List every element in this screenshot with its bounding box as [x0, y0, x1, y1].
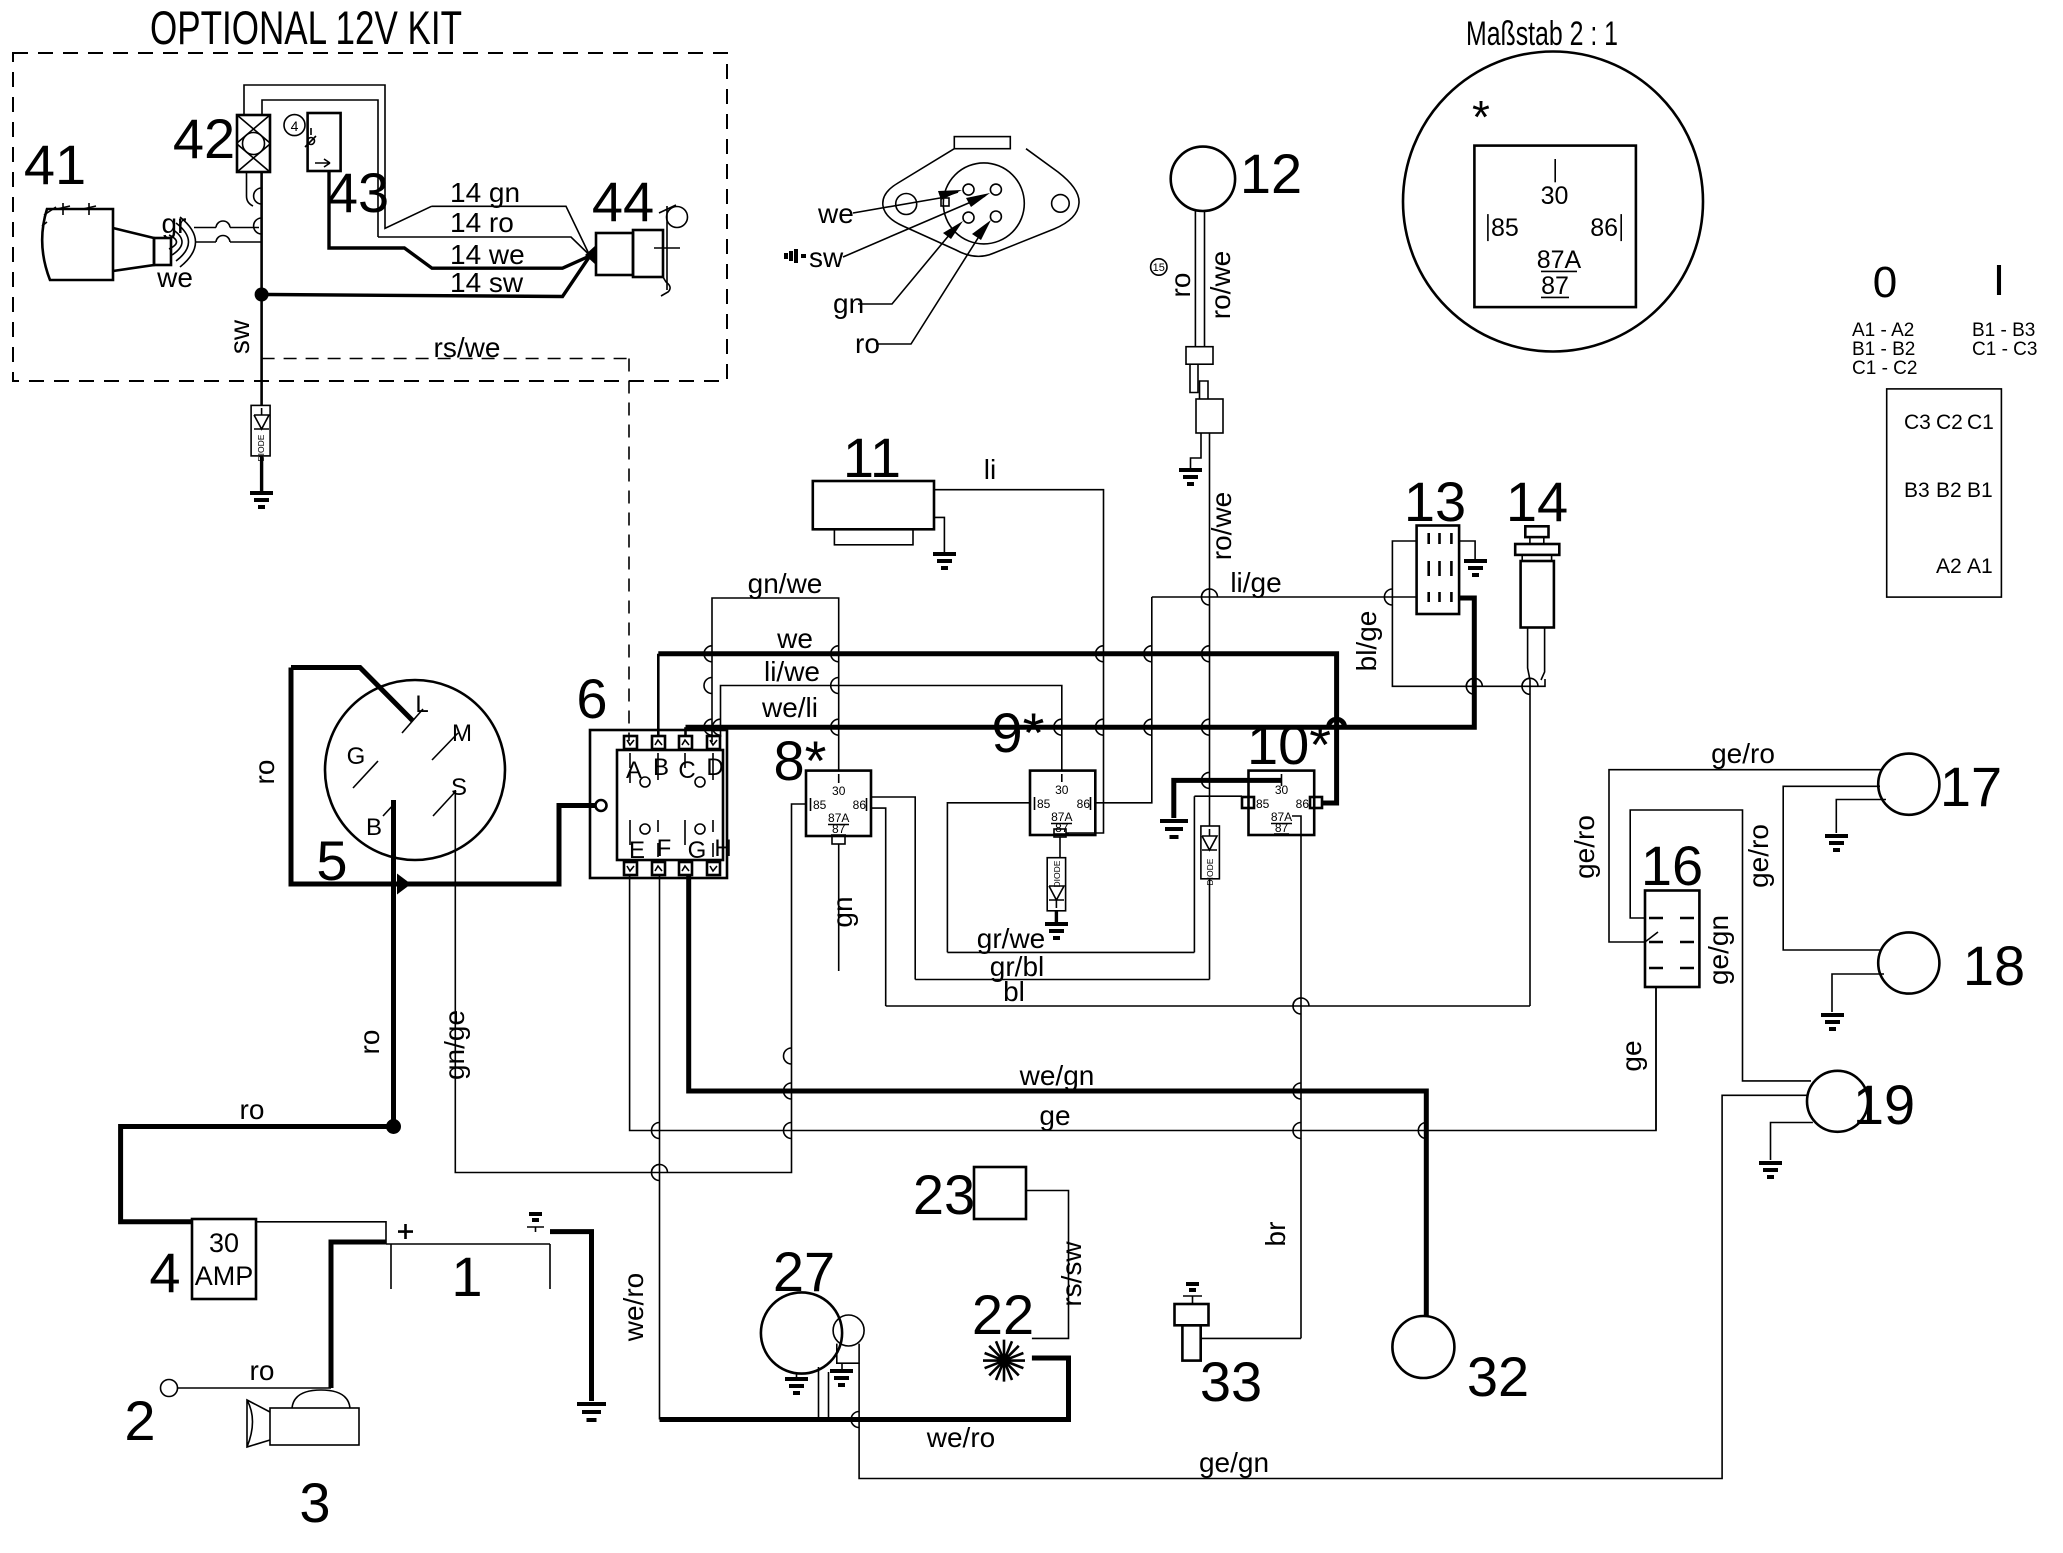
thick wire to item 2 — [331, 1242, 386, 1388]
box 13 — [1417, 526, 1460, 615]
fuse 4 — [192, 1219, 256, 1299]
svg-text:B1 - B3: B1 - B3 — [1972, 320, 2035, 341]
battery 1 — [386, 1244, 550, 1289]
thick wire B down to ro bus — [391, 800, 396, 1122]
wire gr from 41 — [194, 227, 259, 229]
svg-text:sw: sw — [809, 242, 844, 273]
svg-text:we/li: we/li — [761, 692, 818, 723]
wire ro/we down to relay10-85 — [1209, 433, 1211, 796]
terminal 2 — [161, 1380, 178, 1397]
terminal A — [624, 736, 637, 749]
pin 30 tick — [1554, 159, 1556, 182]
ground above — [1186, 1284, 1199, 1290]
svg-text:86: 86 — [853, 798, 867, 812]
wire gr/bl bus — [915, 979, 1209, 981]
svg-text:A1: A1 — [1967, 555, 1993, 578]
circled 4 — [284, 115, 305, 136]
contact B — [383, 803, 395, 816]
wire we from 41 — [196, 241, 261, 243]
svg-text:bl/ge: bl/ge — [1351, 611, 1382, 672]
svg-text:85: 85 — [1037, 797, 1051, 811]
svg-text:30: 30 — [1055, 783, 1069, 797]
svg-text:85: 85 — [813, 798, 827, 812]
svg-text:ro: ro — [354, 1030, 385, 1055]
wire 13 to ground — [1459, 541, 1475, 559]
connector pin box — [1887, 389, 2002, 597]
svg-text:87: 87 — [1275, 821, 1289, 835]
terminal circle left — [596, 800, 607, 811]
svg-text:sw: sw — [224, 319, 255, 354]
box 9 — [1030, 771, 1095, 835]
svg-text:2: 2 — [124, 1389, 155, 1452]
svg-text:M: M — [452, 720, 472, 747]
ground — [1160, 821, 1188, 837]
svg-text:F: F — [657, 835, 672, 862]
svg-text:rs/sw: rs/sw — [1056, 1241, 1087, 1307]
wire 33 to br — [1201, 1337, 1301, 1339]
wire li/we — [721, 686, 1062, 771]
svg-text:ge: ge — [1616, 1040, 1647, 1071]
wire 17 to 18 ge/ro — [1783, 786, 1881, 950]
wire 42top-right inner loop to 14ro — [262, 100, 378, 237]
wire sw down to diode — [260, 301, 263, 405]
relay8 87 pin block — [832, 836, 845, 844]
svg-text:B1 - B2: B1 - B2 — [1852, 339, 1915, 360]
wire ge/ro top — [1609, 770, 1882, 942]
svg-text:30: 30 — [1541, 182, 1569, 210]
svg-text:ge/gn: ge/gn — [1199, 1447, 1269, 1478]
contact L — [402, 709, 423, 733]
svg-text:9*: 9* — [992, 701, 1045, 764]
thick wire ro left frame — [291, 668, 595, 885]
terminal H — [707, 862, 720, 875]
svg-text:C1 - C2: C1 - C2 — [1852, 358, 1917, 379]
svg-text:14: 14 — [1506, 470, 1568, 533]
svg-text:22: 22 — [972, 1283, 1034, 1346]
ground 19 — [1771, 1123, 1813, 1161]
wire 9-85 to gr/we — [947, 803, 1030, 953]
thick wire battery minus to ground — [550, 1232, 592, 1401]
svg-text:B2: B2 — [1936, 479, 1962, 502]
svg-text:87: 87 — [1541, 272, 1569, 300]
svg-text:AMP: AMP — [195, 1261, 254, 1291]
svg-text:44: 44 — [592, 170, 654, 233]
wire we/ro from F down — [659, 874, 661, 1420]
svg-text:14 we: 14 we — [450, 239, 525, 270]
wire bl/ge 13 to 14 — [1392, 541, 1545, 686]
svg-text:B: B — [653, 754, 669, 781]
svg-text:ro: ro — [249, 760, 280, 785]
svg-text:16: 16 — [1641, 834, 1703, 897]
relay square — [1474, 146, 1636, 308]
wire ge bus — [630, 874, 1656, 1131]
terminal C — [679, 736, 692, 749]
ground — [1464, 561, 1487, 575]
box 23 — [974, 1167, 1026, 1219]
dashed kit border — [13, 53, 727, 381]
svg-text:A1 - A2: A1 - A2 — [1852, 320, 1914, 341]
svg-text:we: we — [817, 198, 854, 229]
wire to ground from connector — [1191, 433, 1202, 468]
wire 14 sw thick — [268, 258, 589, 297]
spark gap 22 — [983, 1340, 1025, 1382]
svg-text:8*: 8* — [774, 729, 827, 792]
wire ge from 16 to ge bus — [1655, 987, 1657, 1131]
svg-text:we/gn: we/gn — [1019, 1060, 1095, 1091]
wire 85 horizontal — [1194, 795, 1242, 797]
wire br from 10-87A down to 33 — [1292, 816, 1301, 1338]
wire li/ge down to relay9-86 — [1095, 597, 1152, 803]
junction dot ro — [386, 1119, 401, 1134]
wire we/gn bus thick — [689, 874, 1427, 1316]
minus ground mark — [529, 1214, 542, 1220]
body 14 — [1515, 526, 1559, 680]
svg-text:13: 13 — [1404, 470, 1466, 533]
svg-text:43: 43 — [327, 161, 389, 224]
wire 14 we thick from 43 — [329, 171, 589, 268]
svg-text:86: 86 — [1590, 214, 1618, 242]
svg-text:li: li — [984, 454, 996, 485]
wire stem 12 — [1195, 210, 1204, 347]
svg-text:33: 33 — [1200, 1350, 1262, 1413]
ground — [1045, 924, 1068, 938]
wire 16 top pin to ge/gn — [1630, 810, 1811, 1081]
svg-text:87: 87 — [832, 822, 846, 836]
svg-text:we: we — [156, 262, 193, 293]
svg-text:ro: ro — [250, 1355, 275, 1386]
svg-text:ge/ro: ge/ro — [1743, 824, 1774, 888]
lamp 18 — [1878, 932, 1939, 993]
svg-text:D: D — [706, 754, 723, 781]
svg-text:86: 86 — [1296, 797, 1310, 811]
lamp 19 — [1807, 1071, 1868, 1132]
svg-text:gn: gn — [827, 896, 858, 927]
svg-text:A2: A2 — [1936, 555, 1962, 578]
svg-text:S: S — [451, 774, 467, 801]
wire bl bus — [886, 1005, 1530, 1007]
wire rs/we dashed — [262, 358, 629, 360]
svg-text:gr: gr — [162, 208, 187, 239]
diode below sw — [251, 405, 270, 461]
svg-text:ge/gn: ge/gn — [1703, 915, 1734, 985]
svg-text:85: 85 — [1256, 797, 1270, 811]
svg-text:41: 41 — [24, 133, 86, 196]
ground 17 — [1836, 800, 1886, 834]
svg-text:14 sw: 14 sw — [450, 267, 524, 298]
svg-text:C2: C2 — [1936, 411, 1963, 434]
connector flange — [883, 137, 1079, 257]
svg-text:ro/we: ro/we — [1206, 492, 1237, 560]
wire fuse to battery plus — [256, 1222, 386, 1244]
wire gn/we — [712, 598, 839, 771]
regulator 43 — [305, 113, 341, 171]
svg-text:18: 18 — [1963, 934, 2025, 997]
spark plug connector 44 — [585, 205, 688, 296]
svg-text:H: H — [714, 835, 731, 862]
lamp 17 — [1878, 754, 1939, 815]
thick wire ro into L — [291, 668, 413, 722]
svg-text:30: 30 — [832, 784, 846, 798]
wire gr/we bus — [947, 951, 1194, 953]
svg-text:li/we: li/we — [764, 656, 820, 687]
plus sign — [398, 1224, 413, 1239]
wire sw vertical from 42 — [260, 172, 263, 288]
ground bulb — [841, 1363, 843, 1369]
wire 8-86 to gr/bl — [871, 797, 915, 980]
svg-text:B: B — [366, 814, 382, 841]
svg-text:C1: C1 — [1967, 411, 1994, 434]
svg-text:C3: C3 — [1904, 411, 1931, 434]
wire diode to ground — [260, 456, 263, 491]
svg-text:bl: bl — [1003, 976, 1025, 1007]
pin 86 — [1620, 214, 1622, 241]
wire rs/sw — [1026, 1191, 1069, 1339]
wire we bus thick — [657, 654, 660, 736]
svg-text:15: 15 — [1153, 262, 1165, 274]
svg-text:30: 30 — [209, 1228, 239, 1258]
lamp 12 circle — [1171, 147, 1235, 211]
svg-text:G: G — [347, 743, 366, 770]
circle 5 — [325, 680, 505, 860]
svg-text:ro/we: ro/we — [1205, 251, 1236, 319]
terminal D — [707, 736, 720, 749]
contact G — [353, 761, 378, 788]
svg-text:gn/we: gn/we — [748, 568, 823, 599]
svg-text:B1: B1 — [1967, 479, 1993, 502]
terminal G — [679, 862, 692, 875]
svg-text:14 gn: 14 gn — [450, 177, 520, 208]
ignition generator 41 — [42, 203, 196, 280]
svg-text:br: br — [1260, 1222, 1291, 1247]
wire gn/ge from S — [455, 790, 806, 1173]
bulb 27 — [833, 1315, 864, 1346]
thick ground wire to 30 — [1174, 780, 1282, 818]
wire ro to terminal 2 — [178, 1387, 332, 1389]
wires 27 to we/ro bus — [819, 1367, 829, 1420]
svg-text:42: 42 — [173, 107, 235, 170]
box 6 — [590, 730, 727, 878]
svg-text:85: 85 — [1491, 214, 1519, 242]
svg-text:1: 1 — [451, 1245, 482, 1308]
arrow on wire — [397, 874, 411, 895]
svg-text:gr/we: gr/we — [977, 923, 1045, 954]
wire 9-87 to diode — [1059, 837, 1061, 858]
terminal E — [624, 862, 637, 875]
wire gn from 87 — [838, 844, 840, 971]
ground — [933, 554, 956, 568]
svg-text:ge/ro: ge/ro — [1569, 815, 1600, 879]
terminal B — [652, 736, 665, 749]
terminal F — [652, 862, 665, 875]
svg-text:4: 4 — [149, 1241, 180, 1304]
svg-text:Maßstab 2 : 1: Maßstab 2 : 1 — [1466, 15, 1618, 53]
svg-text:gn/ge: gn/ge — [439, 1010, 470, 1080]
wire 11 to ground — [934, 517, 944, 552]
box 10 — [1249, 771, 1315, 835]
wire we/li thick — [684, 727, 687, 736]
wire ro bus thick — [121, 1127, 394, 1222]
wire bulb to ge/gn — [859, 1095, 1808, 1478]
svg-text:B3: B3 — [1904, 479, 1930, 502]
connector pair 12 — [1186, 347, 1223, 433]
svg-text:0: 0 — [1873, 258, 1897, 307]
diode under 10-85 — [1201, 796, 1220, 885]
wire diode to gr/bl — [1209, 879, 1211, 980]
wire li/ge from 13 to left — [1152, 596, 1417, 598]
wire 42top to 14gn loop — [244, 85, 432, 228]
wire gr/we right end up — [1193, 796, 1195, 952]
svg-text:ro: ro — [240, 1094, 265, 1125]
svg-text:li/ge: li/ge — [1230, 567, 1281, 598]
svg-text:17: 17 — [1940, 755, 2002, 818]
svg-text:4: 4 — [291, 118, 299, 134]
pin blocks 10 — [1242, 797, 1254, 808]
lamp 27 — [761, 1292, 842, 1373]
rectifier 42 — [237, 115, 270, 172]
svg-text:ge/ro: ge/ro — [1711, 738, 1775, 769]
ground — [577, 1404, 606, 1420]
svg-text:we/ro: we/ro — [618, 1273, 649, 1342]
wire we/ro bus thick — [660, 1358, 1069, 1420]
svg-text:we: we — [776, 623, 813, 654]
svg-text:6: 6 — [576, 667, 607, 730]
label sw + symbol + leader — [786, 249, 806, 263]
ground 18 — [1832, 974, 1884, 1012]
wire 8-87A to bl — [871, 808, 886, 1006]
wire 14 ro — [378, 237, 589, 254]
svg-text:14 ro: 14 ro — [450, 207, 514, 238]
switch 16 — [1645, 891, 1699, 988]
wire 14 down to bl — [1529, 680, 1531, 1006]
box 11 — [813, 481, 934, 529]
ground — [250, 493, 273, 507]
svg-text:10*: 10* — [1247, 713, 1331, 776]
svg-text:OPTIONAL 12V KIT: OPTIONAL 12V KIT — [150, 1, 462, 54]
horn 3 — [247, 1390, 359, 1447]
svg-text:87A: 87A — [1537, 246, 1582, 274]
pin 85 — [1487, 214, 1489, 241]
wire 14 gn — [432, 206, 589, 253]
svg-text:DIODE: DIODE — [1052, 860, 1062, 887]
svg-text:G: G — [688, 837, 707, 864]
svg-text:3: 3 — [299, 1471, 330, 1534]
big circle — [1403, 52, 1703, 352]
diode under 9 — [1047, 858, 1065, 911]
svg-text:11: 11 — [843, 426, 901, 489]
body 33 — [1175, 1304, 1209, 1325]
svg-text:rs/we: rs/we — [434, 332, 501, 363]
wire diode to ground — [1055, 911, 1058, 922]
svg-text:C1 - C3: C1 - C3 — [1972, 339, 2037, 360]
svg-text:E: E — [629, 837, 645, 864]
svg-text:L: L — [415, 691, 428, 718]
contact S — [433, 791, 456, 816]
contact M — [432, 733, 458, 760]
svg-text:12: 12 — [1240, 142, 1302, 205]
circled 15 — [1151, 259, 1167, 275]
svg-text:I: I — [1993, 256, 2005, 305]
svg-text:19: 19 — [1853, 1073, 1915, 1136]
ground lamp — [796, 1372, 798, 1377]
wire li to relay9-87A — [934, 490, 1104, 833]
svg-text:86: 86 — [1077, 797, 1091, 811]
svg-text:*: * — [1472, 91, 1490, 143]
ground — [1179, 470, 1202, 484]
junction dot sw node — [255, 288, 269, 302]
svg-text:we/ro: we/ro — [926, 1422, 995, 1453]
svg-text:ro: ro — [1165, 273, 1196, 298]
svg-text:ge: ge — [1039, 1100, 1070, 1131]
svg-text:23: 23 — [913, 1163, 975, 1226]
wire 42 bottom-left to rs/we — [247, 172, 254, 206]
svg-text:C: C — [678, 757, 695, 784]
relay9 87 pin block — [1054, 829, 1066, 837]
box 8 — [806, 771, 871, 836]
svg-text:32: 32 — [1467, 1345, 1529, 1408]
